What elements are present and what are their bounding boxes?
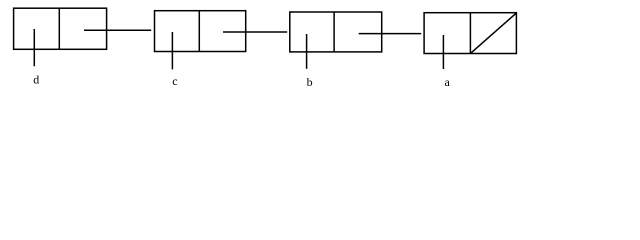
node a data pointer wire: [442, 35, 444, 69]
svg-text:d: d: [33, 73, 39, 87]
node b next pointer wire: [359, 33, 422, 35]
svg-text:a: a: [445, 75, 451, 89]
node c data pointer wire: [171, 32, 173, 69]
svg-text:c: c: [172, 74, 177, 88]
node b data pointer wire: [306, 34, 308, 69]
node b divider: [333, 12, 335, 52]
node d divider: [58, 8, 60, 49]
node c next pointer wire: [223, 31, 287, 33]
node b box: [290, 12, 382, 52]
node d box: [14, 8, 107, 49]
node a null slash: [471, 13, 517, 53]
node d next pointer wire: [84, 29, 151, 31]
node a divider: [469, 13, 471, 54]
node c divider: [198, 11, 200, 52]
node a box: [424, 13, 516, 54]
node c box: [155, 11, 246, 52]
svg-text:b: b: [307, 75, 313, 89]
node d data pointer wire: [33, 29, 35, 66]
